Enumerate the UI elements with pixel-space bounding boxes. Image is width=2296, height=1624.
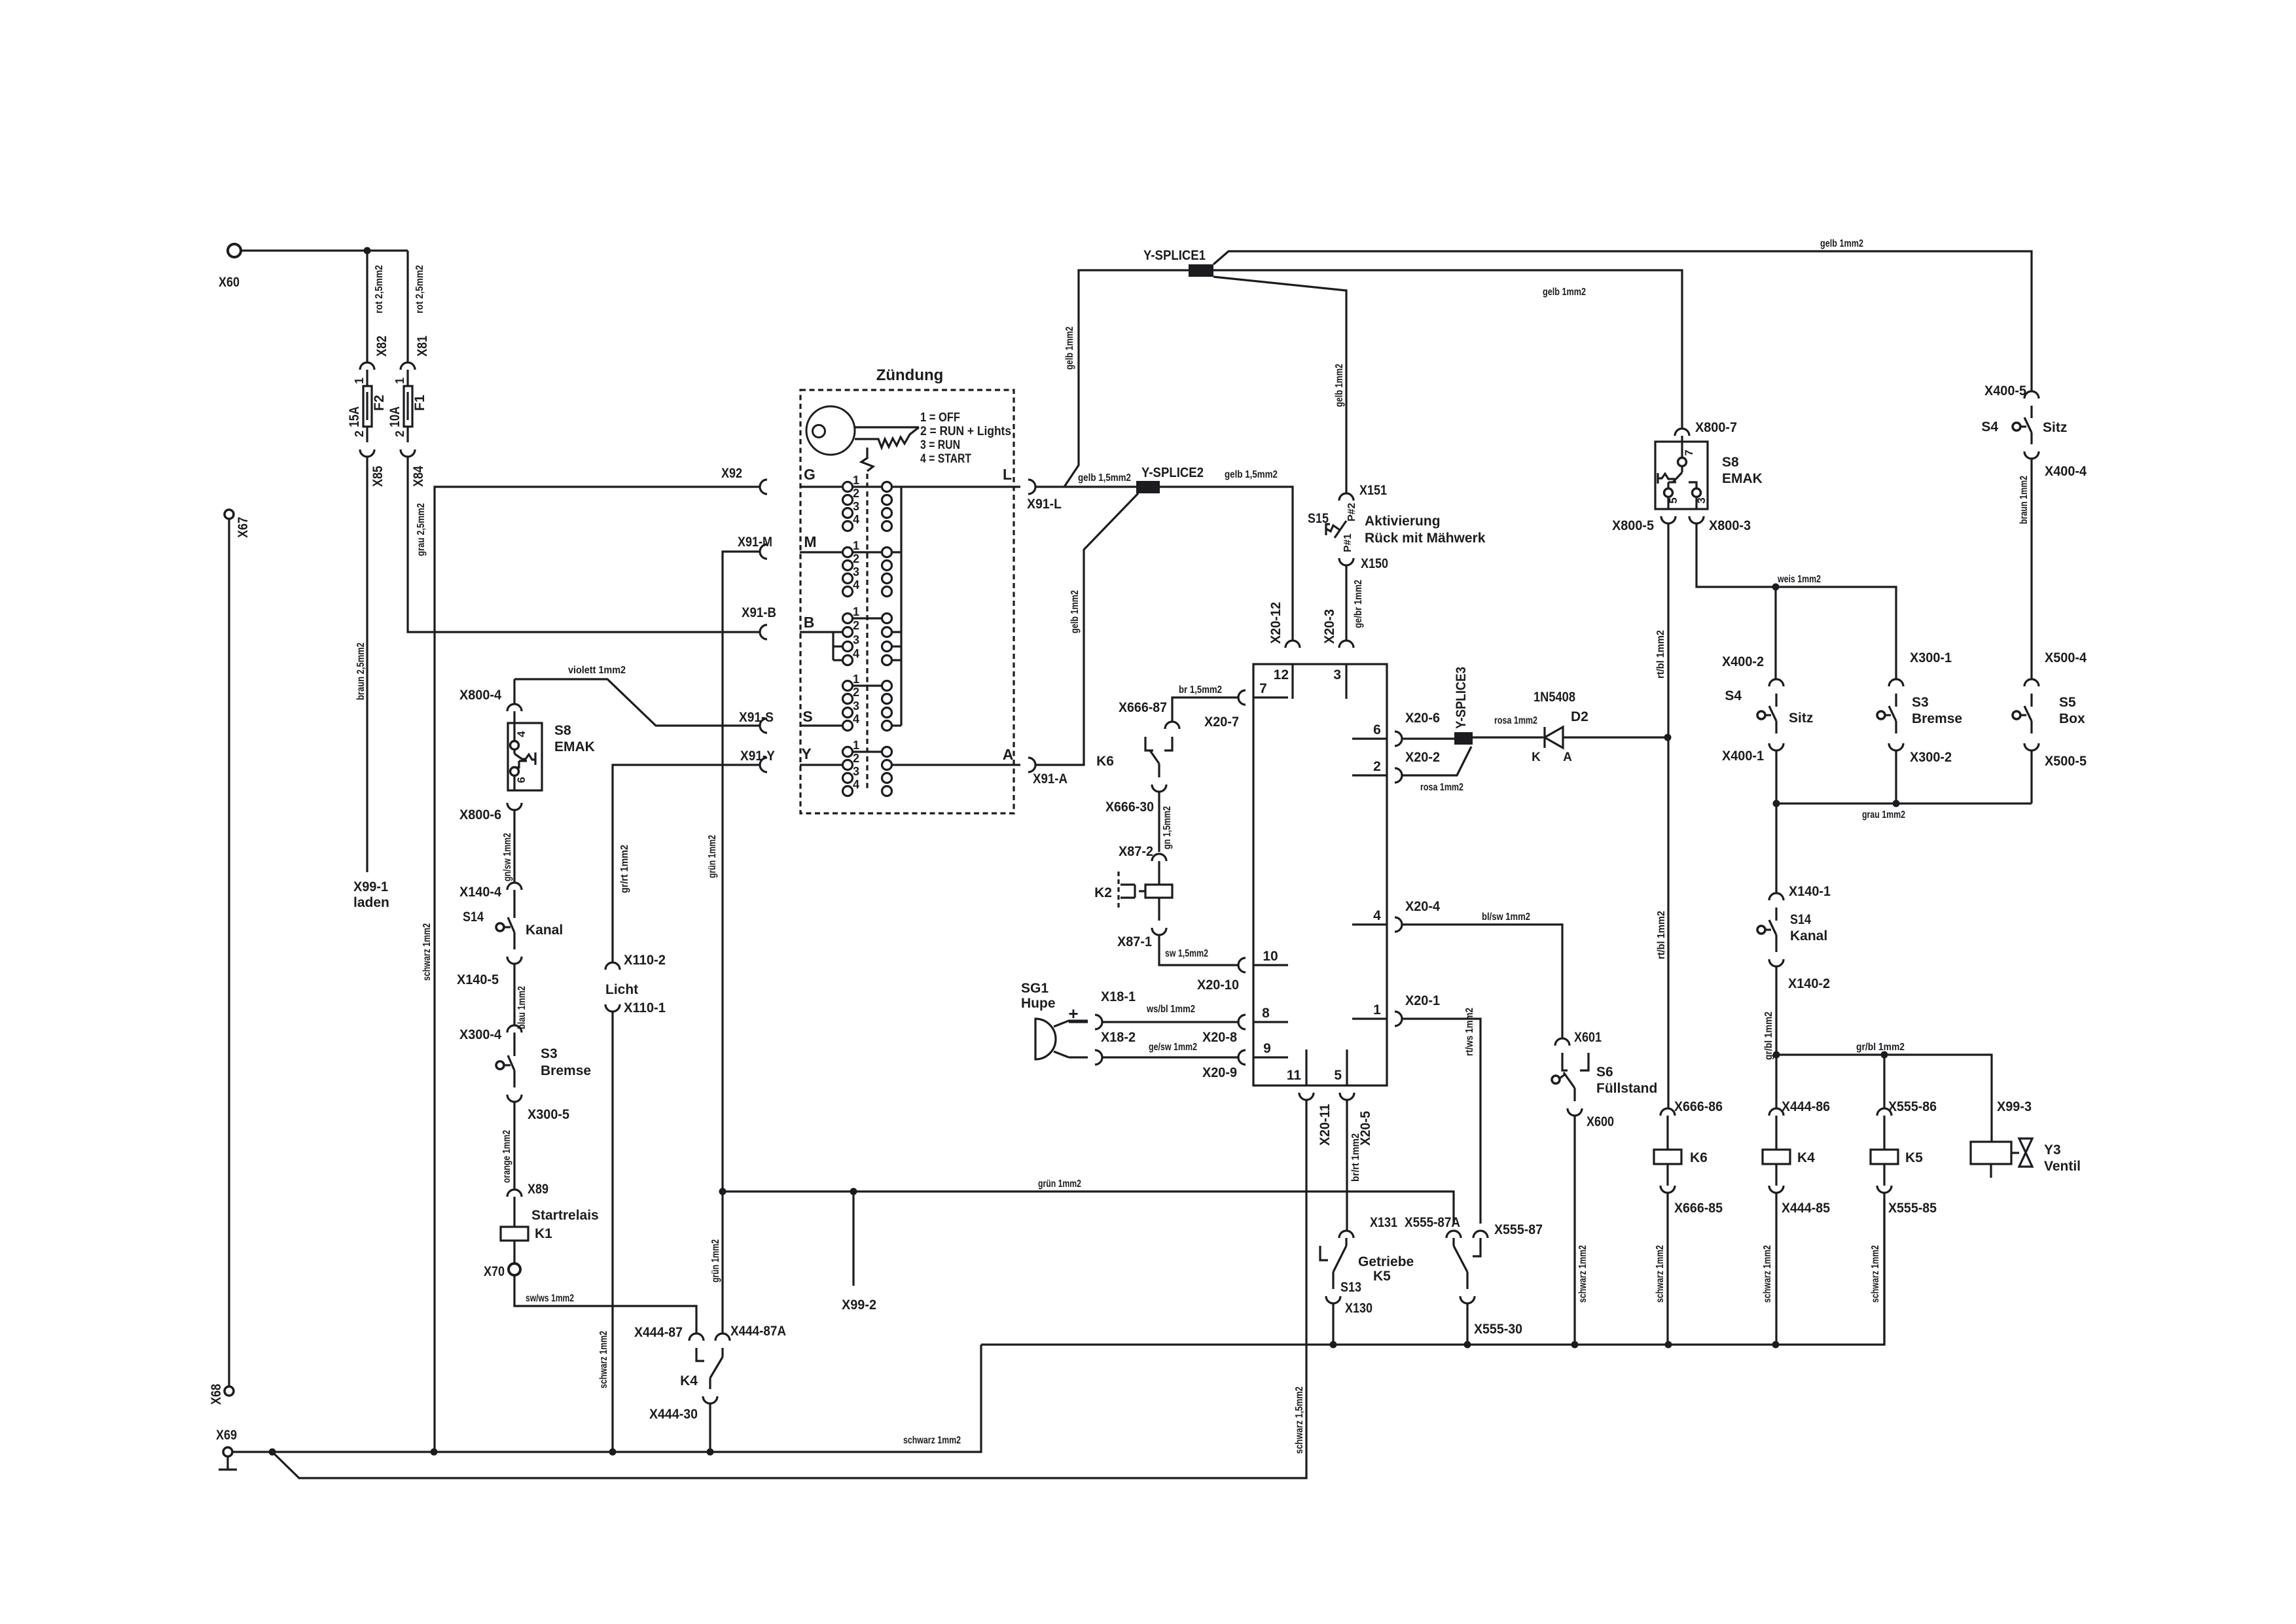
wire bl/sw 1mm2 X20-4 to X601 <box>1402 911 1562 1038</box>
svg-text:4 = START: 4 = START <box>920 452 971 466</box>
connector X444-87 <box>634 1325 704 1341</box>
junction gr/bl X555-86 <box>1881 1051 1888 1059</box>
svg-text:X800-7: X800-7 <box>1695 420 1737 435</box>
svg-text:11: 11 <box>1287 1068 1302 1083</box>
connector X20-7 <box>1204 690 1246 730</box>
wire schwarz 1mm2 K6 to bus <box>1655 1193 1668 1345</box>
svg-text:X69: X69 <box>216 1428 237 1443</box>
fuse F1 10A <box>387 370 427 442</box>
junction gruen X99-2 <box>850 1188 857 1195</box>
connector X555-87 <box>1473 1222 1543 1238</box>
wire rot 2,5mm2 to F2 <box>367 251 385 362</box>
connector X140-4 <box>459 883 522 900</box>
svg-text:X800-3: X800-3 <box>1709 518 1751 533</box>
svg-text:X601: X601 <box>1574 1030 1602 1045</box>
svg-text:4: 4 <box>853 713 859 726</box>
svg-text:K1: K1 <box>535 1226 552 1241</box>
wire X20-5 down to X131 <box>1346 1224 1348 1231</box>
svg-text:Bremse: Bremse <box>541 1063 591 1078</box>
svg-text:Y-SPLICE1: Y-SPLICE1 <box>1143 248 1206 263</box>
ground symbol <box>219 1456 237 1470</box>
svg-text:grün 1mm2: grün 1mm2 <box>710 1239 721 1282</box>
switch S13 Getriebe <box>1320 1238 1414 1295</box>
wire X555-30 to bus <box>1466 1303 1468 1345</box>
svg-text:S14: S14 <box>463 909 484 925</box>
junction bus/diagonal <box>269 1449 276 1456</box>
svg-text:7: 7 <box>1259 681 1267 696</box>
svg-text:X300-4: X300-4 <box>459 1027 501 1042</box>
svg-text:X20-7: X20-7 <box>1204 715 1239 730</box>
svg-text:grün 1mm2: grün 1mm2 <box>1038 1178 1081 1190</box>
connector X82 <box>360 336 389 370</box>
svg-text:8: 8 <box>1262 1006 1270 1021</box>
wire gelb 1mm2 to X800-7 <box>1213 270 1682 429</box>
svg-text:ge/sw 1mm2: ge/sw 1mm2 <box>1149 1042 1197 1053</box>
svg-text:K5: K5 <box>1905 1150 1923 1165</box>
svg-text:F2: F2 <box>372 395 387 411</box>
svg-text:X20-4: X20-4 <box>1405 899 1440 914</box>
wire ws/bl 1mm2 <box>1102 1004 1238 1022</box>
wire gelb 1,5mm2 X91-L to splice2 <box>1035 472 1136 487</box>
connector X444-85 <box>1769 1186 1830 1216</box>
wire br 1,5mm2 X20-7 to X666-87 <box>1172 684 1238 722</box>
svg-text:3: 3 <box>853 765 859 778</box>
wire ge/br 1mm2 X150 to X20-3 <box>1346 565 1364 641</box>
svg-text:A: A <box>1003 746 1014 763</box>
wire rosa 1mm2 splice3 to D2 <box>1473 715 1543 737</box>
svg-text:grün 1mm2: grün 1mm2 <box>707 835 718 878</box>
svg-text:4: 4 <box>853 578 859 591</box>
svg-text:sw/ws 1mm2: sw/ws 1mm2 <box>526 1293 574 1304</box>
relay contact K5 <box>1373 1238 1480 1289</box>
wire schwarz 1mm2 K4 to bus <box>1762 1193 1776 1345</box>
svg-text:X20-3: X20-3 <box>1322 609 1337 644</box>
svg-text:Startrelais: Startrelais <box>531 1208 599 1223</box>
svg-text:X85: X85 <box>370 466 386 487</box>
svg-text:Füllstand: Füllstand <box>1596 1081 1657 1096</box>
connector X800-4 <box>459 679 522 711</box>
ignition switch Zuendung box <box>800 366 1014 813</box>
ignition row B wiring <box>800 618 901 660</box>
relay coil K4 <box>1763 1116 1815 1186</box>
svg-text:gn/sw 1mm2: gn/sw 1mm2 <box>502 833 513 881</box>
svg-text:X82: X82 <box>374 336 389 357</box>
svg-text:6: 6 <box>515 777 528 783</box>
connector X800-7 <box>1675 420 1737 436</box>
svg-text:K4: K4 <box>680 1373 698 1388</box>
svg-text:Zündung: Zündung <box>876 366 944 384</box>
svg-text:X555-87A: X555-87A <box>1405 1215 1460 1230</box>
svg-text:schwarz 1,5mm2: schwarz 1,5mm2 <box>1294 1386 1305 1454</box>
wire X20-6 to Y-SPLICE3 <box>1402 737 1454 739</box>
wire br/rt 1mm2 X20-5 to X131 <box>1347 1100 1361 1224</box>
wire sw 1,5mm2 X87-1 to X20-10 <box>1159 935 1238 965</box>
connector X18-2 <box>1069 1030 1136 1065</box>
svg-text:P#1: P#1 <box>1342 533 1354 552</box>
svg-text:X500-4: X500-4 <box>2045 650 2087 665</box>
connector X140-1 <box>1769 884 1831 900</box>
svg-text:S8: S8 <box>1722 455 1739 470</box>
svg-text:S3: S3 <box>541 1046 558 1061</box>
connector X444-30 <box>649 1396 717 1422</box>
svg-text:schwarz 1mm2: schwarz 1mm2 <box>1577 1245 1588 1303</box>
connector X20-3 <box>1322 609 1354 648</box>
svg-text:X20-6: X20-6 <box>1405 711 1440 726</box>
connector X91-L <box>1027 480 1062 512</box>
connector X555-87A <box>1405 1215 1461 1238</box>
switch S4 Sitz lower <box>1725 688 1813 733</box>
svg-text:gelb 1mm2: gelb 1mm2 <box>1064 327 1075 370</box>
svg-text:rt/bl 1mm2: rt/bl 1mm2 <box>1655 630 1666 679</box>
svg-text:1: 1 <box>393 378 406 384</box>
wire rosa 1mm2 X20-2 to splice3 <box>1402 747 1471 793</box>
svg-text:X400-5: X400-5 <box>1984 383 2026 398</box>
junction grau/X400-1 <box>1773 800 1780 807</box>
junction grau/X300-2 <box>1893 800 1900 807</box>
svg-text:Y3: Y3 <box>2044 1142 2061 1157</box>
svg-text:3: 3 <box>853 500 859 513</box>
connector X400-4 <box>2024 451 2087 479</box>
svg-text:Rück mit Mähwerk: Rück mit Mähwerk <box>1365 531 1486 546</box>
wire X600 to bus <box>1575 1116 1588 1345</box>
wire X444-30 to bus <box>709 1403 711 1452</box>
relay coil K5 <box>1871 1116 1923 1186</box>
svg-text:K6: K6 <box>1690 1150 1708 1165</box>
connector X400-1 <box>1722 743 1784 764</box>
svg-text:1: 1 <box>353 378 366 384</box>
svg-text:X151: X151 <box>1359 483 1387 498</box>
svg-text:15A: 15A <box>347 406 362 427</box>
svg-text:grau 1mm2: grau 1mm2 <box>1862 809 1905 821</box>
horn SG1 Hupe <box>1021 981 1088 1059</box>
svg-text:X800-4: X800-4 <box>459 688 501 703</box>
svg-text:X92: X92 <box>721 466 742 481</box>
svg-text:X89: X89 <box>528 1182 548 1197</box>
connector X20-4 <box>1395 899 1440 932</box>
svg-text:schwarz 1mm2: schwarz 1mm2 <box>1870 1245 1881 1303</box>
svg-text:braun 2,5mm2: braun 2,5mm2 <box>355 643 367 700</box>
lamp Licht <box>605 982 638 997</box>
ground bus from X69 <box>232 1345 981 1452</box>
svg-text:X555-30: X555-30 <box>1474 1322 1522 1337</box>
svg-text:S4: S4 <box>1725 688 1742 703</box>
svg-text:2: 2 <box>853 619 859 632</box>
switch S14 Kanal right <box>1757 908 1827 952</box>
svg-text:2: 2 <box>1373 759 1381 774</box>
svg-text:Aktivierung: Aktivierung <box>1365 514 1441 529</box>
svg-text:gn 1,5mm2: gn 1,5mm2 <box>1162 806 1173 849</box>
svg-text:Ventil: Ventil <box>2044 1159 2081 1174</box>
svg-text:X300-5: X300-5 <box>528 1107 569 1122</box>
svg-text:schwarz 1mm2: schwarz 1mm2 <box>598 1331 609 1388</box>
svg-text:X91-M: X91-M <box>738 535 772 550</box>
svg-text:Bremse: Bremse <box>1912 711 1962 726</box>
svg-text:X99-2: X99-2 <box>842 1297 876 1313</box>
svg-text:Y-SPLICE2: Y-SPLICE2 <box>1141 465 1204 480</box>
connector X800-6 <box>459 803 522 822</box>
svg-text:X140-2: X140-2 <box>1788 976 1830 991</box>
svg-text:X70: X70 <box>484 1264 505 1279</box>
svg-text:X555-86: X555-86 <box>1888 1099 1937 1114</box>
svg-text:X140-4: X140-4 <box>459 885 501 900</box>
svg-text:K6: K6 <box>1096 754 1114 769</box>
svg-text:A: A <box>1563 750 1572 764</box>
wire braun 2,5mm2 to X99-1 <box>355 457 367 872</box>
svg-text:3: 3 <box>853 565 859 578</box>
svg-text:X140-5: X140-5 <box>457 972 499 987</box>
svg-text:S4: S4 <box>1981 419 1998 434</box>
svg-text:X150: X150 <box>1361 556 1388 571</box>
connector X87-2 <box>1119 844 1166 861</box>
connector X666-86 <box>1660 1099 1723 1116</box>
splice Y-SPLICE3 <box>1454 667 1473 745</box>
connector X91-S <box>739 710 774 733</box>
splice Y-SPLICE2 <box>1136 465 1204 493</box>
svg-text:rosa 1mm2: rosa 1mm2 <box>1494 715 1537 726</box>
svg-text:SG1: SG1 <box>1021 981 1049 996</box>
svg-text:X800-6: X800-6 <box>459 807 501 822</box>
ignition row M line <box>800 551 901 553</box>
svg-text:schwarz 1mm2: schwarz 1mm2 <box>1762 1245 1773 1303</box>
switch S3 Bremse left <box>496 1033 591 1087</box>
svg-text:weis 1mm2: weis 1mm2 <box>1777 574 1821 585</box>
svg-text:L: L <box>1003 466 1012 483</box>
wire gelb 1mm2 top to X400-5 <box>1213 238 2032 391</box>
svg-text:gelb 1,5mm2: gelb 1,5mm2 <box>1078 472 1131 484</box>
svg-text:2: 2 <box>853 552 859 565</box>
svg-text:4: 4 <box>515 731 528 737</box>
svg-text:gr/bl 1mm2: gr/bl 1mm2 <box>1763 1012 1774 1060</box>
svg-text:9: 9 <box>1263 1041 1271 1056</box>
wire gelb 1,5mm2 splice2 to X20-12 <box>1160 469 1293 641</box>
node X99-3 <box>1997 1099 2032 1114</box>
svg-text:br/rt 1mm2: br/rt 1mm2 <box>1350 1133 1361 1182</box>
relay coil K2 <box>1094 861 1172 921</box>
svg-text:1: 1 <box>853 474 859 487</box>
svg-text:M: M <box>804 533 816 550</box>
wire braun 1mm2 X400-4 to X500-4 <box>2018 459 2032 680</box>
svg-text:Kanal: Kanal <box>1790 928 1827 944</box>
connector X666-87 <box>1119 700 1179 729</box>
connector X20-2 <box>1395 750 1440 783</box>
svg-text:X87-2: X87-2 <box>1119 844 1153 859</box>
svg-text:K5: K5 <box>1373 1269 1391 1284</box>
connector X500-4 <box>2024 650 2087 686</box>
wire X60 feed <box>241 249 408 251</box>
wire gr/bl 1mm2 horizontal <box>1776 1042 1992 1142</box>
diode D2 1N5408 <box>1532 690 1664 764</box>
svg-text:br 1,5mm2: br 1,5mm2 <box>1179 684 1222 696</box>
svg-text:bl/sw 1mm2: bl/sw 1mm2 <box>1482 911 1530 923</box>
ignition terminal letters <box>801 466 1013 763</box>
svg-text:4: 4 <box>853 647 859 660</box>
svg-text:X87-1: X87-1 <box>1117 934 1152 949</box>
junction weis/X400-2 <box>1772 584 1780 591</box>
svg-text:2: 2 <box>353 431 366 437</box>
ignition key symbol <box>806 406 919 455</box>
junction gr/bl X444-86 <box>1773 1051 1780 1059</box>
svg-text:violett 1mm2: violett 1mm2 <box>568 665 626 676</box>
svg-text:X81: X81 <box>415 336 430 357</box>
wire X555-86 drop <box>1883 1055 1885 1108</box>
svg-text:sw 1,5mm2: sw 1,5mm2 <box>1165 948 1208 959</box>
wire schwarz 1,5mm2 lower bus <box>272 1100 1306 1478</box>
svg-text:1N5408: 1N5408 <box>1534 690 1575 705</box>
connector X666-30 <box>1105 785 1166 815</box>
connector X400-2 <box>1722 654 1784 686</box>
wire sw/ws 1mm2 X70 to K4 <box>514 1275 696 1333</box>
relay bus junctions <box>1330 1341 1780 1349</box>
connector X131 <box>1339 1215 1397 1238</box>
svg-text:12: 12 <box>1274 667 1289 682</box>
svg-text:Box: Box <box>2059 711 2085 726</box>
relay contact K4 <box>680 1348 723 1389</box>
connector X140-5 <box>457 957 522 987</box>
svg-text:X300-2: X300-2 <box>1910 750 1952 765</box>
wire gruen 1mm2 bottom <box>723 1178 1454 1224</box>
svg-text:laden: laden <box>353 895 389 910</box>
solenoid valve Y3 Ventil <box>1971 1139 2081 1178</box>
wire X444-86 drop <box>1775 1055 1777 1108</box>
svg-text:X444-87: X444-87 <box>634 1325 683 1340</box>
svg-text:G: G <box>804 466 816 483</box>
svg-text:X444-87A: X444-87A <box>730 1324 786 1339</box>
svg-text:6: 6 <box>1373 722 1381 737</box>
connector X20-9 <box>1202 1050 1246 1080</box>
svg-text:4: 4 <box>853 513 859 526</box>
svg-text:S13: S13 <box>1340 1280 1361 1295</box>
svg-text:Kanal: Kanal <box>526 923 563 938</box>
wire gr/bl 1mm2 X140-2 down <box>1763 966 1776 1060</box>
splice Y-SPLICE1 <box>1143 248 1213 277</box>
wire gelb 1mm2 splice1 to X91-L <box>1064 270 1189 487</box>
switch S6 Fuellstand <box>1552 1053 1657 1101</box>
svg-text:X300-1: X300-1 <box>1910 650 1952 665</box>
wire rt/bl 1mm2 X800-5 to X666-86 <box>1655 523 1668 1108</box>
svg-text:S8: S8 <box>554 723 571 738</box>
connector X555-30 <box>1460 1296 1522 1337</box>
connector X20-11 <box>1299 1093 1333 1146</box>
svg-text:X67: X67 <box>236 517 251 538</box>
fuse F2 15A <box>347 370 387 442</box>
wire gelb 1mm2 splice1 to X151 <box>1213 277 1346 493</box>
svg-text:K2: K2 <box>1094 885 1112 900</box>
svg-text:Licht: Licht <box>605 982 638 997</box>
svg-text:3: 3 <box>1333 667 1341 682</box>
junction bus/X444-30 <box>707 1449 714 1456</box>
connector X444-86 <box>1769 1099 1830 1116</box>
connector X20-12 <box>1268 602 1300 648</box>
wire X67 to X68 <box>228 519 230 1386</box>
svg-text:S14: S14 <box>1790 912 1811 927</box>
switch S8 EMAK left <box>508 711 595 790</box>
terminal X68 <box>209 1384 234 1405</box>
switch S14 Kanal left <box>463 890 563 949</box>
junction rosa/rt-bl <box>1664 734 1672 741</box>
node X99-1 laden <box>353 879 389 910</box>
svg-text:X666-30: X666-30 <box>1105 800 1154 815</box>
connector X555-85 <box>1877 1186 1937 1216</box>
svg-text:X666-85: X666-85 <box>1674 1201 1723 1216</box>
terminal X60 <box>219 244 241 290</box>
ignition row S wiring <box>800 686 901 726</box>
terminal X67 <box>224 510 251 538</box>
ignition key mechanical link <box>861 448 873 791</box>
svg-text:X110-1: X110-1 <box>624 1000 666 1015</box>
relay coil K6 <box>1654 1116 1708 1186</box>
junction bus/Licht schwarz <box>609 1449 617 1456</box>
svg-text:rt/ws 1mm2: rt/ws 1mm2 <box>1464 1008 1475 1056</box>
svg-text:X84: X84 <box>411 466 426 487</box>
svg-text:X20-8: X20-8 <box>1202 1030 1237 1045</box>
svg-text:EMAK: EMAK <box>1722 471 1763 486</box>
ignition row G/L line <box>800 485 1020 487</box>
svg-text:4: 4 <box>1373 908 1381 923</box>
connector X20-8 <box>1202 1015 1246 1045</box>
wire gelb 1mm2 splice2 to X91-A <box>1035 493 1138 765</box>
wire grau 1mm2 <box>1776 750 2032 893</box>
connector X89 <box>507 1182 548 1197</box>
junction bus/X92 schwarz <box>431 1449 438 1456</box>
svg-text:X130: X130 <box>1345 1301 1372 1316</box>
connector X300-5 <box>507 1095 569 1122</box>
svg-text:X20-10: X20-10 <box>1197 978 1239 993</box>
svg-text:X68: X68 <box>209 1384 224 1405</box>
ignition contact circles <box>843 474 892 796</box>
svg-text:schwarz 1mm2: schwarz 1mm2 <box>422 923 433 981</box>
terminal X70 <box>484 1263 520 1279</box>
connector X81 <box>401 336 430 370</box>
connector X91-M <box>738 535 772 559</box>
svg-text:ws/bl 1mm2: ws/bl 1mm2 <box>1146 1004 1195 1015</box>
connector X140-2 <box>1769 959 1830 991</box>
svg-text:X444-30: X444-30 <box>649 1407 698 1422</box>
svg-text:X91-A: X91-A <box>1033 771 1067 786</box>
svg-text:gr/rt 1mm2: gr/rt 1mm2 <box>619 845 630 893</box>
svg-text:X131: X131 <box>1370 1215 1397 1230</box>
svg-text:2: 2 <box>853 752 859 765</box>
svg-text:X500-5: X500-5 <box>2045 754 2087 769</box>
wire gn/sw 1mm2 <box>502 810 514 883</box>
relay coil K1 Startrelais <box>501 1197 599 1263</box>
connector X800-3 <box>1689 516 1751 533</box>
wire grau 2,5mm2 X84 to X91-B <box>408 457 760 632</box>
connector X84 <box>401 450 426 487</box>
svg-text:X91-L: X91-L <box>1027 497 1062 512</box>
svg-text:D2: D2 <box>1571 709 1588 724</box>
svg-text:X400-4: X400-4 <box>2045 464 2087 479</box>
connector X20-10 <box>1197 958 1246 993</box>
terminal X69 <box>216 1428 237 1456</box>
svg-text:S3: S3 <box>1912 695 1929 710</box>
connector X151 <box>1339 483 1387 501</box>
wire blau 1mm2 <box>514 964 528 1029</box>
svg-text:X555-87: X555-87 <box>1494 1222 1543 1237</box>
connector X666-85 <box>1660 1186 1723 1216</box>
wire weis 1mm2 X800-3 <box>1696 523 1896 680</box>
svg-text:rosa 1mm2: rosa 1mm2 <box>1420 782 1463 793</box>
connector X18-1 <box>1069 989 1136 1029</box>
svg-text:2: 2 <box>853 487 859 500</box>
label schwarz 1mm2 bus <box>903 1435 961 1446</box>
switch S3 Bremse right <box>1877 694 1962 733</box>
wire schwarz 1mm2 K5 to bus <box>1870 1193 1884 1345</box>
svg-text:5: 5 <box>1334 1068 1342 1083</box>
svg-text:ge/br 1mm2: ge/br 1mm2 <box>1353 580 1364 628</box>
svg-text:1 = OFF: 1 = OFF <box>920 411 960 425</box>
svg-text:X60: X60 <box>219 275 240 290</box>
svg-text:X600: X600 <box>1587 1114 1614 1129</box>
